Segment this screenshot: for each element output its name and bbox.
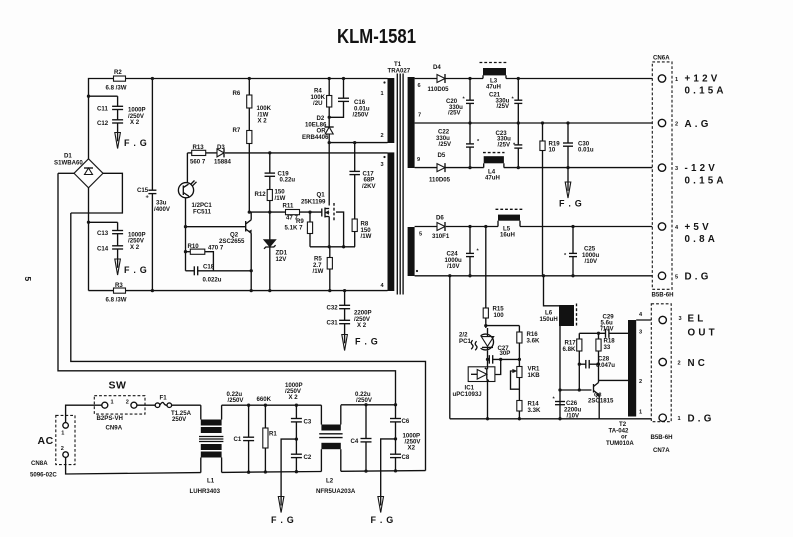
svg-text:R3: R3 — [115, 282, 123, 289]
wire AC pin2 to bottom rail — [66, 457, 201, 474]
capacitor C1 0.22u/250V — [227, 391, 255, 472]
svg-text:D5: D5 — [438, 152, 446, 159]
capacitor C27 30P — [486, 345, 520, 367]
svg-text:5: 5 — [675, 274, 678, 280]
svg-text:/250V: /250V — [228, 397, 245, 404]
switch SW part number B2PS-VH CN9A — [97, 415, 123, 432]
connector CN7A dashed box — [651, 304, 671, 422]
svg-text:2: 2 — [639, 379, 642, 385]
svg-text:/1W: /1W — [361, 233, 372, 240]
svg-text:R10: R10 — [188, 243, 200, 250]
svg-text:C12: C12 — [97, 120, 109, 127]
wire Q3 base row — [560, 388, 592, 391]
wire L2 to output top — [341, 403, 397, 406]
line filter choke L2 NFR5UA203A — [316, 405, 356, 495]
diode D3 1S884 — [206, 144, 388, 166]
svg-text:47uH: 47uH — [485, 174, 500, 181]
svg-text:D4: D4 — [433, 64, 441, 71]
svg-text:C4: C4 — [351, 438, 359, 445]
svg-text:C3: C3 — [304, 419, 312, 426]
svg-text:0.15A: 0.15A — [685, 176, 727, 187]
capacitor C3 1000P — [285, 382, 312, 439]
wire Q1 source to sense row — [328, 217, 330, 247]
svg-text:C15: C15 — [137, 187, 149, 194]
svg-text:C31: C31 — [327, 320, 339, 327]
svg-text:R11: R11 — [283, 203, 294, 210]
page number 5 (rotated) — [23, 277, 33, 282]
svg-text:X 2: X 2 — [258, 118, 268, 125]
wire EL section bottom rail (D.G) — [450, 417, 659, 420]
svg-text:C2: C2 — [304, 454, 312, 461]
svg-text:47uH: 47uH — [486, 83, 501, 90]
svg-text:/400V: /400V — [154, 206, 171, 213]
svg-text:FC511: FC511 — [193, 208, 212, 215]
svg-text:NFR5UA203A: NFR5UA203A — [316, 488, 356, 495]
diode D2 10EL86 / ERB4406 clamp — [302, 115, 334, 143]
connector CN6A pin 2 A.G — [658, 119, 711, 130]
resistor R4 100K/2W snubber — [311, 77, 332, 127]
svg-text:2SC1815: 2SC1815 — [588, 398, 614, 405]
wire Q1 drain to pin2 node — [328, 143, 330, 206]
connector CN7A pin 2 NC — [659, 358, 708, 369]
wire pin2 row — [328, 141, 388, 144]
potentiometer VR1 1KB — [511, 358, 541, 401]
wire bottom rail left segment — [89, 289, 388, 292]
svg-text:B5B-6H: B5B-6H — [651, 434, 673, 441]
svg-text:B5B-6H: B5B-6H — [652, 292, 674, 299]
wire +12V rail — [415, 77, 659, 80]
svg-text:PC1: PC1 — [459, 338, 471, 345]
svg-text:12V: 12V — [276, 256, 288, 263]
title KLM-1581 — [337, 26, 416, 48]
wire inner AC feed down and right (to filter output) — [71, 213, 426, 471]
svg-text:CN8A: CN8A — [31, 460, 48, 467]
resistor R5 2.7/1W current sense — [313, 247, 333, 292]
frame ground F.G right bottom — [371, 497, 395, 526]
svg-text:F . G: F . G — [355, 337, 379, 347]
wire C29 row (T2 pin3) — [579, 332, 628, 335]
svg-text:uPC1093J: uPC1093J — [453, 391, 482, 398]
transformer T1 primary winding 1-2 — [381, 78, 395, 143]
svg-text:ERB4406: ERB4406 — [302, 134, 329, 141]
inductor L5 16uH — [496, 209, 523, 238]
wire T2 pin4 to EL OUT — [636, 319, 658, 321]
svg-text:5096-02C: 5096-02C — [30, 472, 57, 479]
connector CN6A pin 3 -12V — [658, 163, 726, 187]
line filter choke L1 LUHR3403 — [190, 405, 224, 495]
svg-text:F . G: F . G — [371, 515, 395, 525]
resistor R2 — [106, 69, 127, 92]
capacitor C25 1000u/10V — [564, 227, 600, 276]
connector CN6A pin 4 +5V — [658, 222, 718, 245]
capacitor C17 68P/2KV snubber — [349, 143, 376, 219]
svg-text:/25V: /25V — [439, 141, 452, 148]
svg-text:150uH: 150uH — [540, 316, 558, 323]
svg-text:C18: C18 — [203, 264, 215, 271]
capacitor C22 330u/25V — [436, 123, 480, 168]
wire SW to fuse F1 — [137, 404, 155, 406]
label 100K/1W X2 for R6 R7 — [257, 105, 272, 125]
capacitor C32 2200P — [327, 289, 372, 317]
capacitor C8 1000P — [390, 437, 410, 471]
capacitor C15 33u/400V — [137, 77, 171, 291]
capacitor C18 0.022u — [186, 264, 252, 284]
connector CN7A pin 1 D.G — [659, 414, 715, 425]
svg-text:OUT: OUT — [688, 328, 718, 339]
svg-text:/2U: /2U — [313, 100, 323, 107]
resistor R12 150/1W — [255, 189, 286, 213]
transistor Q2 2SC2655 — [186, 212, 253, 292]
capacitor C24 1000u/10V — [445, 227, 480, 276]
svg-text:S1WBA60: S1WBA60 — [54, 160, 83, 167]
transistor Q3 2SC1815 — [588, 364, 614, 419]
svg-text:/25V: /25V — [497, 103, 510, 110]
svg-text:LUHR3403: LUHR3403 — [190, 488, 221, 495]
svg-text:/10V: /10V — [585, 258, 598, 265]
svg-text:-12V: -12V — [685, 163, 719, 174]
resistor R17 6.8K — [563, 333, 582, 390]
svg-text:SW: SW — [109, 380, 127, 392]
wire bridge right vertex jog to inner AC feed — [71, 173, 123, 213]
wire L1 to L2 bottom rail — [222, 470, 322, 474]
inductor L3 47uH — [480, 63, 509, 91]
svg-text:A.G: A.G — [685, 119, 712, 130]
resistor R9 5.1K — [285, 212, 313, 247]
wire C3 C2 midpoint to frame ground — [281, 439, 296, 496]
svg-text:/250V: /250V — [353, 112, 370, 119]
capacitor C19 0.22u — [265, 153, 296, 190]
diode D4 11DQ05 — [428, 64, 450, 93]
svg-text:X2: X2 — [408, 445, 416, 452]
connector CN7A pin 3 EL OUT — [659, 314, 718, 339]
optocoupler LED 2/2 PC1 — [459, 328, 494, 351]
svg-text:/1W: /1W — [275, 195, 286, 202]
connector CN6A label — [653, 55, 670, 62]
svg-text:CN7A: CN7A — [653, 447, 670, 454]
wire gate row — [248, 210, 322, 213]
svg-text:/25V: /25V — [498, 141, 511, 148]
capacitor C26 2200u/10V — [553, 388, 582, 419]
svg-text:/1W: /1W — [313, 268, 324, 275]
svg-text:CN6A: CN6A — [653, 55, 670, 62]
svg-text:1: 1 — [639, 410, 642, 416]
capacitor C29 5.6u/10V — [600, 314, 614, 338]
wire A.G rail — [415, 121, 659, 124]
wire Q1 case return to sense row — [336, 212, 345, 248]
wire -12V rail — [415, 166, 659, 169]
svg-text:3: 3 — [679, 316, 682, 322]
svg-text:3.3K: 3.3K — [528, 407, 541, 414]
svg-text:5: 5 — [23, 277, 33, 282]
wire D.G rail — [415, 274, 659, 277]
connector CN6A pin 5 D.G — [658, 272, 711, 283]
phototransistor 1/2 PC1 FC511 — [178, 153, 212, 227]
frame ground F.G under C31 — [342, 324, 379, 351]
transformer T1 secondary winding 6-7-9 — [408, 77, 422, 168]
svg-text:16uH: 16uH — [500, 231, 515, 238]
wire stub to C11 — [87, 95, 118, 98]
wire stub to C13 — [89, 221, 118, 223]
fuse F1 T1.25A 250V — [155, 395, 191, 424]
svg-text:660K: 660K — [257, 396, 272, 403]
svg-text:+5V: +5V — [685, 222, 712, 233]
svg-text:C32: C32 — [327, 305, 339, 312]
svg-text:2: 2 — [678, 361, 681, 367]
svg-text:F . G: F . G — [124, 265, 148, 275]
bridge rectifier D1 S1WBA60 — [54, 153, 103, 188]
svg-text:/25V: /25V — [448, 110, 461, 117]
capacitor C28 0.047u — [578, 356, 616, 369]
capacitor C30 0.01u — [563, 123, 594, 168]
svg-text:0.022u: 0.022u — [203, 277, 222, 284]
resistor R13 — [187, 144, 205, 166]
svg-text:1: 1 — [61, 431, 64, 437]
resistor R7 — [233, 108, 252, 212]
transformer T2 label TA-042 or TUM010A — [606, 421, 634, 447]
wire F1 to L1 — [172, 404, 201, 406]
resistor R3 in bottom rail — [106, 282, 127, 304]
svg-text:310F1: 310F1 — [432, 233, 450, 240]
inductor L4 47uH — [483, 153, 505, 182]
wire bridge left vertex to outer AC feed — [58, 172, 74, 174]
svg-text:F . G: F . G — [271, 515, 295, 525]
wire +5V rail — [415, 225, 659, 228]
wire sense row — [310, 245, 355, 248]
svg-text:110D05: 110D05 — [428, 86, 450, 93]
svg-text:6: 6 — [418, 83, 421, 89]
svg-text:9: 9 — [417, 157, 420, 163]
svg-text:R1: R1 — [269, 431, 277, 438]
svg-text:D6: D6 — [436, 215, 444, 222]
svg-text:/2KV: /2KV — [362, 183, 376, 190]
resistor R19 10 — [540, 123, 560, 276]
svg-text:X 2: X 2 — [289, 394, 299, 401]
connector CN8A pin 2 — [63, 452, 69, 458]
svg-text:/250V: /250V — [356, 397, 373, 404]
connector CN6A part number B5B-6H — [652, 292, 674, 299]
transformer T1 secondary winding 5V — [408, 227, 423, 276]
svg-text:X 2: X 2 — [130, 244, 140, 251]
capacitor C11 — [97, 96, 146, 113]
wire C6 C8 midpoint to frame ground — [381, 439, 396, 497]
svg-text:33: 33 — [604, 344, 611, 351]
svg-text:110D05: 110D05 — [429, 177, 451, 184]
resistor R8 150/1W snubber — [352, 219, 371, 247]
svg-text:6.8 /3W: 6.8 /3W — [106, 85, 127, 92]
svg-text:1: 1 — [381, 91, 384, 97]
connector CN7A part number B5B-6H — [651, 434, 673, 454]
svg-text:2: 2 — [61, 446, 64, 452]
capacitor C21 330u/25V — [489, 79, 522, 124]
resistor R18 33 — [596, 333, 615, 364]
svg-text:6.8 /3W: 6.8 /3W — [106, 297, 127, 304]
capacitor C31 2200P — [327, 309, 371, 329]
svg-text:7: 7 — [418, 113, 421, 119]
transformer T1 TRA027 label — [388, 61, 411, 75]
wire top rail from left corner to transformer pin 1 — [89, 79, 388, 160]
wire L1 to L2 top — [222, 404, 322, 407]
resistor R16 3.6K — [517, 326, 540, 367]
transformer T1 core — [397, 74, 403, 295]
capacitor C16 0.01u/250V — [329, 77, 370, 119]
svg-text:D1: D1 — [64, 153, 72, 160]
svg-text:C11: C11 — [97, 106, 108, 113]
svg-text:R6: R6 — [233, 90, 241, 97]
svg-text:L2: L2 — [326, 478, 334, 485]
connector CN8A pin 1 — [63, 423, 69, 429]
svg-text:/10V: /10V — [601, 326, 614, 333]
svg-text:TRA027: TRA027 — [388, 68, 411, 75]
svg-text:C14: C14 — [97, 245, 109, 252]
svg-text:KLM-1581: KLM-1581 — [337, 26, 416, 48]
svg-text:F . G: F . G — [559, 199, 583, 209]
svg-text:1: 1 — [111, 400, 114, 406]
wire LED anode node row — [484, 318, 519, 328]
connector CN8A AC inlet dashed box — [38, 415, 76, 464]
svg-text:F . G: F . G — [124, 138, 148, 148]
svg-text:TUM010A: TUM010A — [606, 440, 634, 447]
diode D6 310F1 — [432, 215, 450, 240]
svg-text:R12: R12 — [255, 191, 267, 198]
svg-text:NC: NC — [688, 358, 709, 369]
svg-text:25K1199: 25K1199 — [301, 198, 326, 205]
switch SW contacts — [102, 400, 137, 409]
svg-text:0.01u: 0.01u — [578, 147, 594, 154]
svg-text:X 2: X 2 — [130, 119, 140, 126]
svg-text:+12V: +12V — [685, 74, 721, 85]
svg-text:EL: EL — [688, 314, 707, 325]
capacitor C12 — [97, 110, 145, 128]
transformer T1 primary winding 3-4 — [381, 152, 395, 291]
resistor R15 100 — [483, 227, 504, 319]
resistor R14 3.3K — [517, 401, 541, 419]
svg-text:2: 2 — [381, 133, 384, 139]
svg-text:C13: C13 — [97, 230, 109, 237]
frame ground F.G top-left — [115, 123, 148, 149]
svg-text:250V: 250V — [172, 416, 187, 423]
frame ground F.G left bottom — [271, 497, 295, 526]
svg-text:30P: 30P — [500, 350, 511, 357]
wire bridge bottom to C13 junction and bottom rail — [87, 188, 90, 291]
capacitor C4 0.22u/250V — [351, 391, 373, 471]
svg-text:3: 3 — [639, 330, 642, 336]
svg-text:R13: R13 — [193, 144, 205, 151]
capacitor C23 330u/25V — [496, 123, 523, 168]
svg-text:C8: C8 — [402, 454, 410, 461]
svg-text:3: 3 — [381, 162, 384, 168]
wire outer AC feed down and right (to filter output) — [58, 173, 396, 405]
svg-text:0.15A: 0.15A — [685, 86, 727, 97]
svg-text:2: 2 — [675, 122, 678, 128]
svg-text:0.22u: 0.22u — [280, 177, 296, 184]
svg-text:R7: R7 — [233, 127, 241, 134]
svg-text:2: 2 — [126, 400, 129, 406]
svg-text:B2PS-VH: B2PS-VH — [97, 415, 123, 422]
svg-text:5.1K 7: 5.1K 7 — [285, 224, 304, 231]
svg-text:470 7: 470 7 — [208, 245, 224, 252]
inductor L6 150uH — [540, 276, 577, 419]
connector CN6A pin 1 +12V — [658, 74, 726, 97]
zener diode ZD1 12V — [264, 212, 288, 292]
svg-text:1: 1 — [675, 77, 678, 83]
frame ground F.G mid-left — [115, 249, 148, 275]
svg-text:F1: F1 — [160, 395, 168, 402]
capacitor C13 — [97, 222, 146, 238]
switch SW dashed box — [94, 396, 145, 414]
diode D5 11DQ05 — [429, 152, 451, 184]
svg-text:3.6K: 3.6K — [527, 337, 540, 344]
resistor R11 47 — [283, 203, 300, 222]
wire C27 junction down to IC1 ref row — [495, 359, 501, 374]
svg-text:X 2: X 2 — [357, 322, 367, 329]
svg-text:L1: L1 — [207, 478, 215, 485]
resistor R1 660K — [257, 396, 278, 472]
capacitor C2 1000P — [291, 437, 312, 471]
svg-text:6.8K: 6.8K — [563, 346, 576, 353]
svg-text:C1: C1 — [234, 436, 242, 443]
resistor R6 — [233, 77, 252, 108]
svg-text:3: 3 — [675, 166, 678, 172]
transformer T2 winding — [628, 312, 643, 417]
capacitor C6 1000P — [390, 405, 421, 452]
shunt regulator IC1 uPC1093J — [453, 367, 495, 419]
resistor R10 470 — [184, 225, 224, 271]
svg-text:CN9A: CN9A — [106, 425, 123, 432]
wire EL section left edge — [449, 276, 451, 419]
wire AC pin1 to SW — [66, 405, 102, 422]
MOSFET Q1 25K1199 — [301, 192, 334, 222]
svg-text:1: 1 — [678, 416, 681, 422]
capacitor C14 — [97, 234, 145, 253]
svg-text:10: 10 — [549, 147, 556, 154]
wire L2 to output bottom rail — [341, 469, 426, 473]
connector CN6A dashed box — [652, 62, 672, 289]
svg-text:/10V: /10V — [447, 263, 460, 270]
svg-text:/10V: /10V — [567, 413, 580, 420]
svg-text:100: 100 — [494, 312, 505, 319]
capacitor C20 330u/25V — [446, 79, 474, 124]
svg-text:D.G: D.G — [685, 272, 712, 283]
connector CN8A labels — [30, 460, 57, 479]
svg-text:R2: R2 — [114, 69, 122, 76]
svg-text:C6: C6 — [402, 418, 410, 425]
svg-text:5: 5 — [419, 232, 422, 238]
switch SW label — [109, 380, 127, 392]
svg-text:0.8A: 0.8A — [685, 234, 719, 245]
svg-text:15884: 15884 — [214, 159, 232, 166]
svg-text:D3: D3 — [217, 144, 225, 151]
svg-text:AC: AC — [38, 435, 54, 447]
svg-text:560 7: 560 7 — [190, 159, 206, 166]
frame ground F.G under C30 — [559, 168, 583, 209]
svg-text:1KB: 1KB — [528, 372, 541, 379]
wire T2 pin2 row — [599, 379, 629, 381]
svg-text:D.G: D.G — [688, 414, 715, 425]
